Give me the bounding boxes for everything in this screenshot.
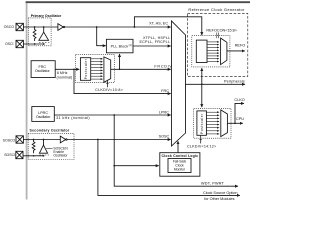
svg-text:Postscaler: Postscaler [84,58,88,79]
svg-text:FRC: FRC [161,89,169,93]
svg-text:XT, HS, EC: XT, HS, EC [149,22,168,26]
svg-text:OSCI: OSCI [5,42,14,46]
svg-text:SOSCI: SOSCI [4,153,15,157]
svg-text:Primary Oscillator: Primary Oscillator [31,14,62,18]
svg-text:Clock Source Option: Clock Source Option [203,191,238,195]
svg-text:ECPLL, FRCPLL: ECPLL, FRCPLL [140,40,171,44]
svg-text:Secondary Oscillator: Secondary Oscillator [30,129,70,133]
svg-text:Reference Clock Generator: Reference Clock Generator [188,7,245,12]
svg-text:Oscillator: Oscillator [53,154,68,158]
svg-text:(1): (1) [129,43,132,47]
svg-text:(nominal): (nominal) [57,75,73,79]
svg-text:Peripherals: Peripherals [224,79,245,83]
svg-text:Monitor: Monitor [174,167,186,171]
svg-text:Oscillator: Oscillator [35,69,51,73]
svg-text:FRCDIV: FRCDIV [154,65,172,69]
svg-text:SOSCO: SOSCO [3,138,16,142]
svg-text:CLKO: CLKO [234,98,244,102]
svg-text:PLL Block: PLL Block [111,44,129,48]
svg-text:for Other Modules: for Other Modules [204,197,234,201]
svg-text:SOSC: SOSC [159,134,170,138]
svg-text:REFO: REFO [235,44,246,48]
svg-text:LPRC: LPRC [159,111,169,115]
svg-text:REFOCON<15:8>: REFOCON<15:8> [206,29,237,33]
svg-text:CLKDIV<10:8>: CLKDIV<10:8> [95,88,123,92]
svg-text:Clock Control Logic: Clock Control Logic [162,154,199,158]
svg-text:Oscillator: Oscillator [36,115,51,119]
svg-text:CLKDIV<14:12>: CLKDIV<14:12> [187,145,216,149]
svg-text:Postscaler: Postscaler [200,113,204,134]
svg-text:CPU: CPU [236,117,244,121]
svg-text:WDT, PWRT: WDT, PWRT [201,181,225,185]
svg-text:OSCO: OSCO [4,25,15,29]
svg-text:31 kHz (nominal): 31 kHz (nominal) [56,116,90,120]
